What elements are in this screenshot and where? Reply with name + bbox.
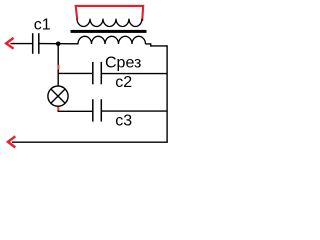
wire C1 to node: [40, 43, 79, 45]
transformer bottom winding (primary): [78, 36, 146, 44]
capacitor c1: [33, 33, 39, 54]
svg-text:Срез: Срез: [105, 55, 141, 72]
red probe tick below lamp: [57, 107, 59, 110]
wire winding right end to rail: [146, 44, 168, 46]
capacitor c2: [93, 62, 102, 84]
capacitor c3: [93, 99, 102, 121]
svg-text:c2: c2: [115, 74, 132, 91]
arrow output bottom (red): [8, 136, 15, 147]
svg-text:c3: c3: [115, 113, 132, 130]
node junction dot: [56, 42, 61, 47]
transformer top winding (secondary): [77, 19, 142, 27]
arrow input top (red): [6, 38, 14, 49]
wire input to C1: [11, 43, 33, 45]
transformer core bar: [71, 30, 147, 33]
wire bottom return: [12, 141, 168, 143]
red probe tick on vertical wire: [57, 65, 59, 69]
lamp (circle with X): [48, 86, 68, 106]
wire right rail: [166, 45, 168, 142]
wire lamp bottom to c3: [58, 106, 92, 111]
transformer red top lead (antenna bracket): [76, 6, 144, 21]
wire branch to c2: [58, 72, 92, 74]
svg-text:c1: c1: [34, 16, 51, 33]
wire node down to lamp: [57, 44, 59, 87]
wire c2 to rail: [102, 73, 167, 75]
wire c3 to rail: [102, 110, 167, 112]
